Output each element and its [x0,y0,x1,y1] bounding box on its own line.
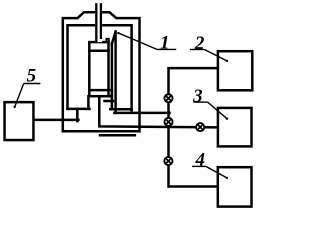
svg-text:5: 5 [27,66,37,87]
svg-text:2: 2 [194,33,205,54]
svg-text:3: 3 [192,86,203,107]
svg-text:4: 4 [195,149,206,170]
svg-text:1: 1 [160,32,170,53]
